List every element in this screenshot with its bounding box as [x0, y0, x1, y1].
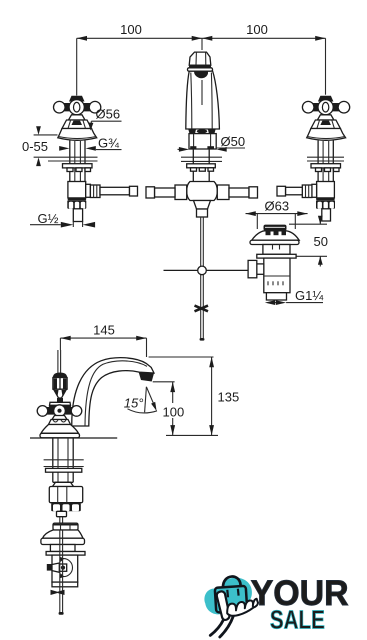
svg-text:100: 100 [163, 405, 185, 420]
tee neck and tail [194, 201, 211, 218]
side handle neck and skirt [49, 416, 71, 425]
svg-text:100: 100 [120, 22, 142, 37]
dimension 15 deg [128, 387, 158, 413]
logo hand finger [217, 591, 230, 620]
spout locknut [187, 164, 216, 171]
logo hand knuckles [227, 599, 258, 616]
right valve locknut [311, 164, 341, 172]
dimension 145 [60, 336, 146, 357]
svg-text:G¾: G¾ [98, 136, 119, 151]
tee left arm [146, 185, 187, 200]
left valve shank [70, 141, 85, 182]
spout tee body [187, 182, 218, 201]
rod clamp side view [51, 590, 65, 595]
drain body [264, 258, 290, 293]
side rod lower [59, 530, 64, 615]
dimension D56 leader [88, 121, 121, 130]
svg-text:G½: G½ [38, 211, 59, 226]
spout front view [186, 52, 220, 129]
left valve handle [54, 96, 101, 120]
right valve handle [302, 96, 349, 120]
logo bag [215, 577, 247, 613]
right valve shank [318, 141, 333, 182]
drain lever port [248, 260, 264, 277]
side spout body [72, 358, 154, 426]
drain knob [264, 225, 287, 236]
left valve outlet [86, 184, 138, 197]
dimension G1 1/4 [265, 300, 323, 305]
side drain body [47, 555, 78, 587]
side hex nut [51, 503, 81, 512]
side shank [53, 438, 73, 482]
pop-up cross bar [164, 266, 248, 275]
right valve hex nut [316, 200, 335, 209]
side handle [37, 402, 82, 416]
side valve body [49, 482, 82, 502]
dimension G1/2 [30, 222, 95, 228]
right valve outlet [277, 184, 317, 197]
spout shank [193, 149, 209, 182]
right valve skirt [311, 120, 341, 129]
drain tail [266, 293, 286, 300]
left valve tail [73, 209, 82, 222]
left valve bell [58, 129, 97, 141]
side drain bell [41, 530, 85, 545]
pop-up rod [200, 217, 205, 341]
right valve bell [307, 129, 346, 141]
dimension line 100+100 top [77, 36, 326, 96]
left valve locknut [63, 164, 93, 172]
side drain neck [50, 545, 75, 552]
svg-text:100: 100 [246, 22, 268, 37]
side deck lines pair [44, 460, 84, 467]
dimension D63 [246, 211, 308, 229]
dimension 50 [289, 216, 327, 267]
svg-text:135: 135 [218, 390, 240, 405]
svg-text:Ø50: Ø50 [221, 134, 246, 149]
spout deck lines [181, 157, 222, 161]
spout base + escutcheon [188, 129, 216, 149]
svg-text:50: 50 [314, 234, 328, 249]
side spout aerator [139, 372, 155, 382]
dimension D50 arrows [178, 147, 246, 152]
svg-text:SALE: SALE [270, 604, 325, 634]
right valve body [316, 182, 334, 201]
left valve body [68, 182, 86, 201]
side rod upper [60, 517, 63, 524]
tee right arm [217, 185, 257, 200]
dimension 100 vertical [153, 382, 175, 436]
dimension 0-55 [34, 126, 68, 166]
svg-text:15°: 15° [124, 395, 144, 410]
rod clamp X [195, 306, 209, 312]
svg-text:G1¼: G1¼ [295, 288, 323, 303]
left valve skirt [62, 120, 92, 129]
dimension G3/4 arrows [59, 146, 121, 151]
drain flange bell [250, 231, 299, 245]
deck line side view [30, 437, 117, 439]
svg-text:Ø56: Ø56 [96, 107, 121, 122]
side pop-up knob [53, 350, 67, 403]
svg-text:0-55: 0-55 [22, 139, 48, 154]
side bell [40, 425, 80, 438]
dimension 135 [149, 357, 214, 435]
logo wrist [210, 616, 233, 637]
drain neck [263, 245, 290, 255]
bottom extension line [166, 434, 218, 436]
side drain knob [53, 523, 78, 530]
svg-text:Ø63: Ø63 [265, 199, 290, 214]
left valve hex nut [67, 200, 86, 209]
logo icon blob [204, 578, 251, 615]
side drain washer [46, 552, 85, 556]
svg-text:145: 145 [93, 323, 115, 338]
left valve deck lines [48, 157, 98, 161]
right valve deck lines [307, 157, 344, 161]
drain washer [257, 254, 296, 258]
right valve tail [322, 209, 331, 221]
side tail cone [57, 511, 67, 516]
logo wrist white band [213, 617, 228, 636]
side locknut washer [46, 468, 82, 472]
